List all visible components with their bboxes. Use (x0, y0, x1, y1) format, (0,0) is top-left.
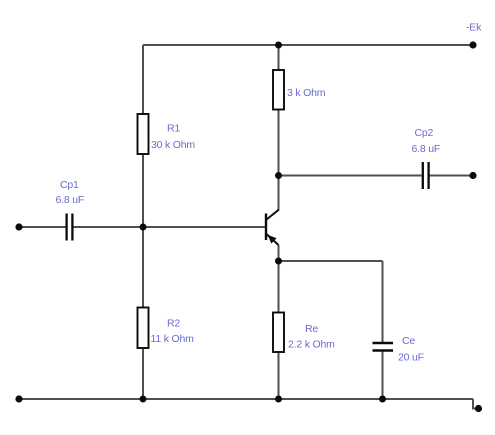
wire Ce top vertical (382, 261, 384, 342)
resistor Re (273, 313, 284, 353)
wire left branch vertical (R1/R2 divider) (142, 45, 144, 399)
terminal -Ek top right (469, 41, 476, 48)
capacitor Ce (373, 343, 394, 351)
svg-text:11 k Ohm: 11 k Ohm (151, 333, 195, 345)
svg-text:Re: Re (305, 323, 318, 335)
node emitter / Ce tap (275, 258, 282, 265)
capacitor Cp1 (67, 214, 73, 241)
wire top rail -Ek (143, 44, 473, 46)
svg-text:6.8 uF: 6.8 uF (56, 194, 85, 206)
wire Ce bottom vertical (382, 352, 384, 400)
wire collector to Cp2 (279, 175, 422, 177)
svg-text:R2: R2 (167, 318, 180, 330)
node top rail / collector branch (275, 42, 282, 49)
wire bottom-right jog to terminal (473, 399, 478, 409)
wire base input horizontal left of Cp1 (19, 226, 66, 228)
terminal ground left (15, 395, 22, 402)
svg-text:-Ek: -Ek (466, 22, 482, 34)
svg-text:3 k Ohm: 3 k Ohm (287, 87, 326, 99)
svg-text:Cp2: Cp2 (415, 127, 434, 139)
wire Cp2 to output terminal (430, 175, 474, 177)
svg-text:30 k Ohm: 30 k Ohm (151, 139, 195, 151)
wire right branch collector vertical (278, 45, 280, 210)
terminal input left (15, 223, 22, 230)
transistor Q1 (PNP) (266, 210, 279, 246)
svg-text:R1: R1 (167, 123, 180, 135)
resistor 3 k Ohm (collector) (273, 70, 284, 110)
wire bottom ground rail (19, 398, 473, 400)
wire emitter node to Ce horizontal (279, 260, 383, 262)
wire base horizontal Cp1 to transistor (73, 226, 266, 228)
resistor R2 (138, 308, 149, 349)
node Ce bottom on ground rail (379, 396, 386, 403)
capacitor Cp2 (423, 162, 429, 189)
node collector / Cp2 tap (275, 172, 282, 179)
svg-text:6.8 uF: 6.8 uF (412, 143, 441, 155)
terminal ground bottom right (475, 405, 482, 412)
svg-text:Ce: Ce (402, 335, 415, 347)
wire emitter vertical through Re (278, 245, 280, 399)
terminal output right (469, 172, 476, 179)
node base / divider junction (140, 224, 147, 231)
svg-text:2.2 k Ohm: 2.2 k Ohm (288, 339, 335, 351)
node divider bottom on ground rail (140, 396, 147, 403)
resistor R1 (138, 114, 149, 154)
node emitter bottom on ground rail (275, 396, 282, 403)
svg-text:Cp1: Cp1 (60, 179, 79, 191)
svg-text:20 uF: 20 uF (398, 351, 424, 363)
